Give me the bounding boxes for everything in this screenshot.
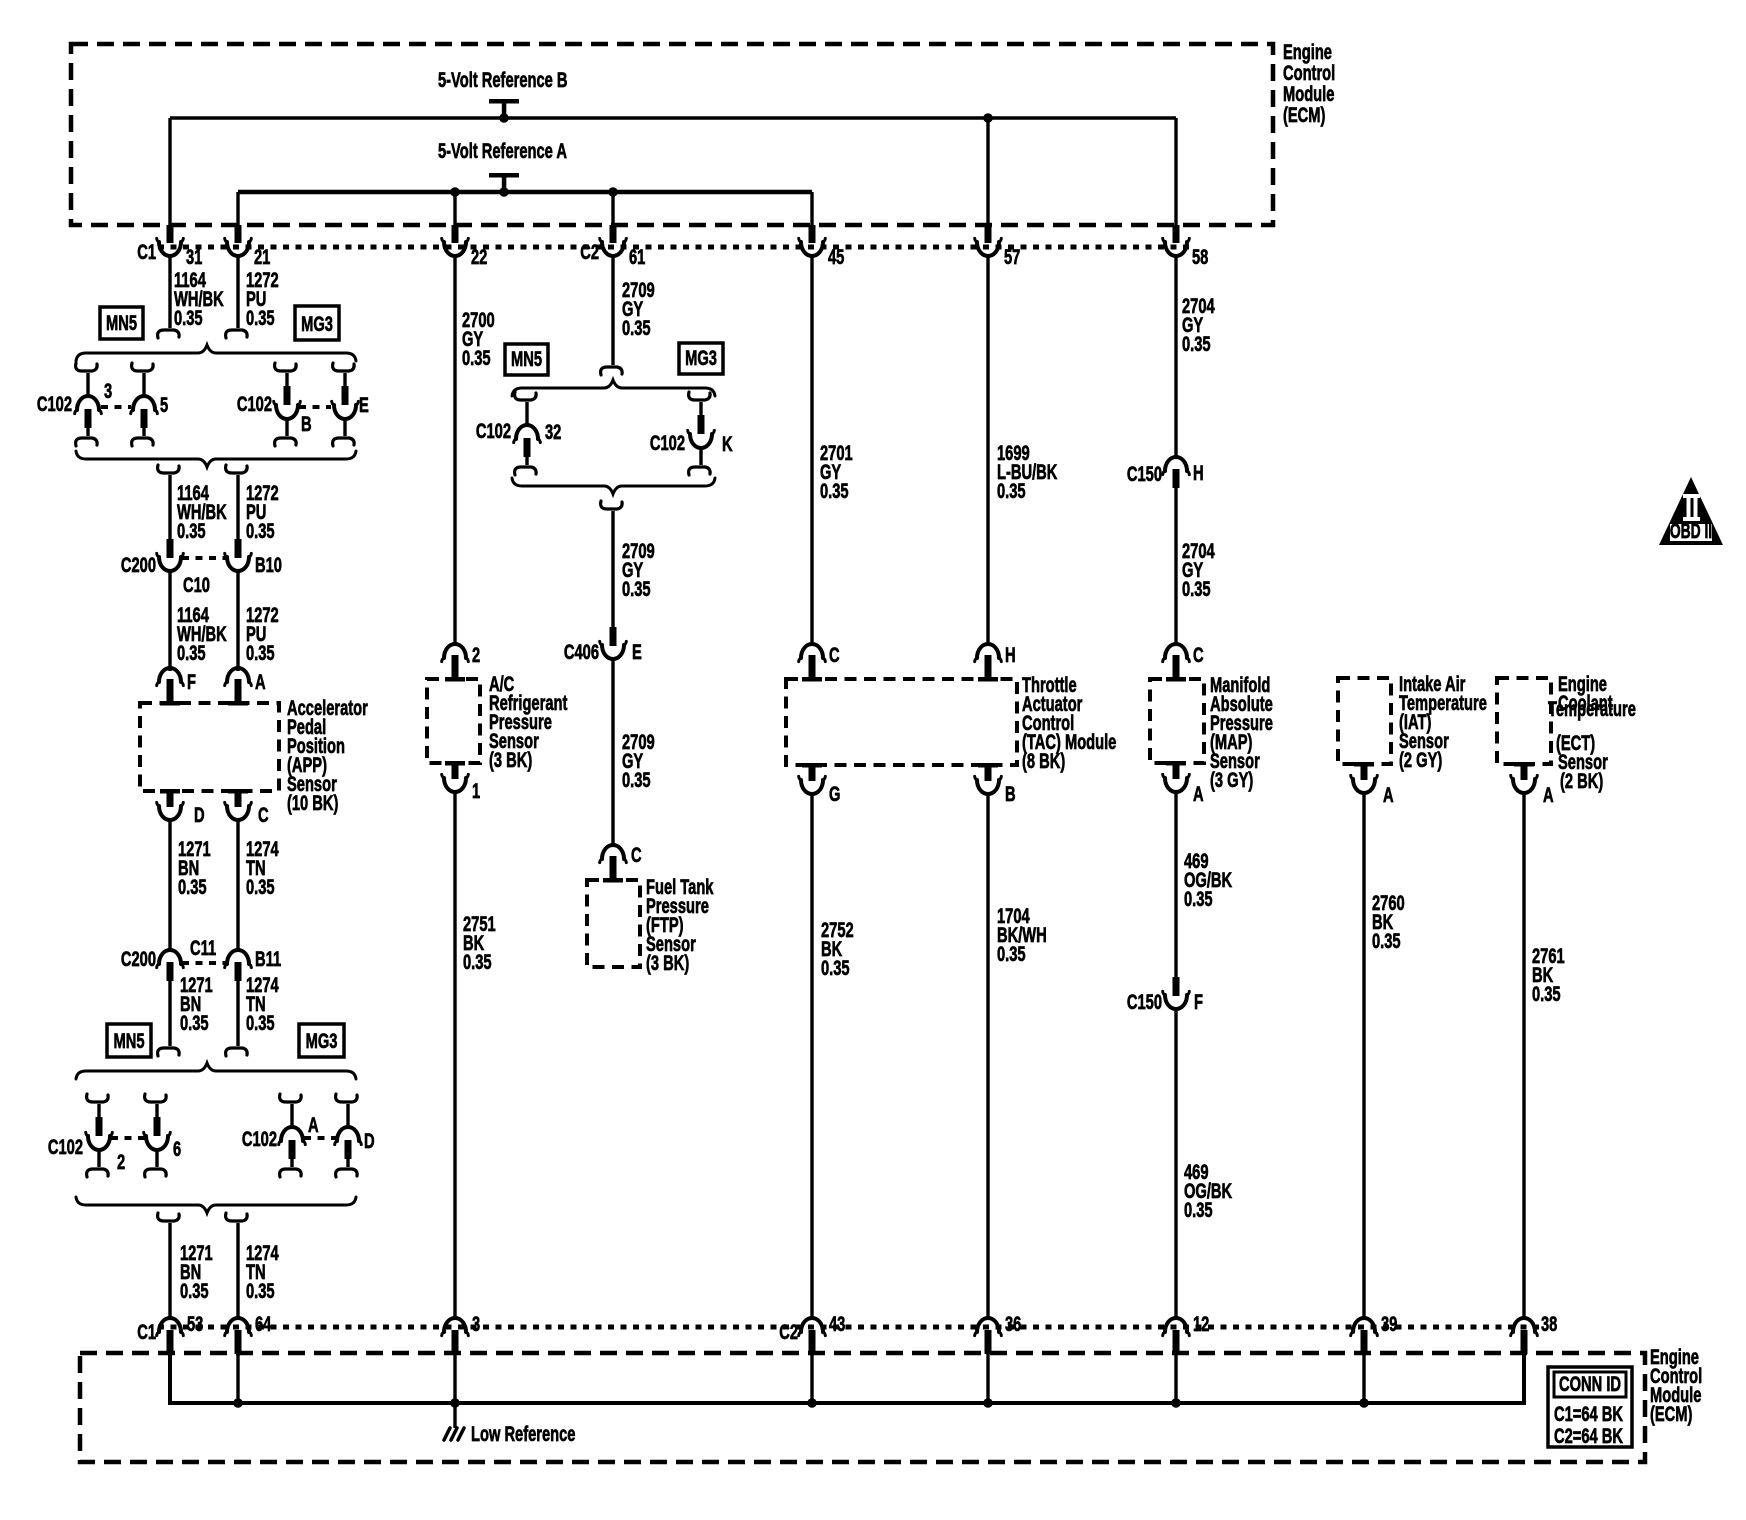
ECM pin 58 (top) (1163, 225, 1209, 269)
svg-text:12: 12 (1193, 1312, 1209, 1335)
svg-text:22: 22 (471, 245, 487, 268)
C200 mating dashes (182, 556, 226, 560)
ECM pin 64 (bottom) (225, 1312, 272, 1354)
svg-text:A: A (308, 1113, 319, 1136)
svg-text:(3 BK): (3 BK) (489, 748, 532, 771)
svg-text:31: 31 (186, 245, 202, 268)
svg-text:OBD II: OBD II (1670, 519, 1712, 543)
svg-text:0.35: 0.35 (1532, 982, 1561, 1005)
svg-text:C10: C10 (183, 573, 210, 596)
wire 469 from MAP pin A to C150 (1174, 792, 1177, 977)
harness label MG3 (295, 306, 339, 340)
wire 469 from C150 to ECM pin 12 (1174, 1009, 1177, 1318)
svg-text:K: K (722, 432, 733, 455)
TAC module pin H (975, 643, 1016, 681)
svg-text:H: H (1005, 643, 1016, 666)
wire label 469 OG/BK 0.35 (1184, 1160, 1232, 1221)
C200 mating dashes (182, 961, 226, 965)
ECM pin 38 (bottom) (1511, 1312, 1558, 1354)
svg-text:C1: C1 (137, 240, 156, 263)
ECM label (top right) (1283, 40, 1335, 126)
5-volt tap symbol on Reference A (489, 173, 519, 197)
harness label MN5 (100, 307, 143, 339)
wire 1274 from C200 to splice group 2 (226, 981, 248, 1056)
ECM pin 3 (bottom) (442, 1312, 480, 1354)
connector C102 pin 32 (476, 392, 561, 475)
svg-text:3: 3 (472, 1312, 480, 1335)
svg-text:(2 BK): (2 BK) (1560, 769, 1603, 792)
harness label MN5 (group 3) (505, 344, 548, 375)
svg-text:Temperature: Temperature (1548, 697, 1636, 720)
wire 2700 from pin 22 to A/C sensor (453, 256, 456, 645)
wire: ref A down to pin 21 (236, 192, 239, 226)
svg-text:21: 21 (254, 245, 270, 268)
connector C102 pin 3 (37, 363, 112, 446)
svg-text:0.35: 0.35 (246, 1011, 275, 1034)
junction on low reference bus x=455 (450, 1354, 460, 1408)
wire 2709 from pin 61 to splice group 3 (601, 256, 623, 375)
svg-text:5-Volt Reference B: 5-Volt Reference B (438, 68, 568, 91)
svg-text:C102: C102 (37, 392, 72, 415)
wire: ref A down to pin 45 (810, 192, 813, 226)
svg-text:C150: C150 (1127, 990, 1162, 1013)
connector C102 pin E (332, 363, 369, 446)
TAC module pin C (799, 643, 840, 681)
svg-text:C11: C11 (190, 936, 216, 959)
wire label 2709 GY 0.35 (622, 539, 655, 600)
svg-text:2: 2 (472, 643, 480, 666)
svg-text:0.35: 0.35 (246, 1279, 275, 1302)
TAC module label (1022, 673, 1116, 772)
CONN ID table (1548, 1367, 1632, 1448)
MAP sensor pin C (1163, 643, 1204, 681)
svg-text:Control: Control (1283, 61, 1335, 84)
svg-text:C2: C2 (580, 240, 599, 263)
svg-text:0.35: 0.35 (997, 942, 1026, 965)
svg-text:MG3: MG3 (306, 1029, 338, 1052)
Low Reference bus inside ECM (170, 1354, 1524, 1403)
Engine Coolant Temperature (ECT) Sensor box (1497, 678, 1551, 764)
APP sensor pin F (157, 668, 196, 706)
svg-text:0.35: 0.35 (246, 875, 275, 898)
svg-text:C: C (1193, 643, 1204, 666)
net label Low Reference (471, 1422, 575, 1445)
svg-text:A: A (255, 670, 266, 693)
APP sensor pin C (225, 789, 269, 827)
svg-text:1: 1 (472, 779, 480, 802)
APP sensor pin D (157, 789, 205, 827)
wire: 5-Volt Reference A bus (238, 190, 812, 195)
connector C102 pin 6 (144, 1094, 181, 1177)
svg-text:0.35: 0.35 (821, 956, 850, 979)
svg-text:0.35: 0.35 (177, 519, 206, 542)
svg-text:0.35: 0.35 (622, 316, 651, 339)
wire 2752 from TAC pin G to ECM pin 43 (810, 794, 813, 1318)
wire 1699 from pin 57 to TAC module (986, 256, 989, 645)
svg-text:MN5: MN5 (113, 1029, 144, 1052)
svg-text:38: 38 (1541, 1312, 1557, 1335)
Throttle Actuator Control (TAC) Module box (786, 679, 1017, 765)
brace (bottom) of C102 splice group 1 (76, 451, 356, 467)
svg-text:A: A (1383, 783, 1394, 806)
svg-text:C: C (258, 803, 269, 826)
svg-text:B: B (301, 412, 312, 435)
wire label 2760 BK 0.35 (1372, 891, 1405, 952)
junction on low reference bus x=238 (233, 1354, 243, 1408)
connector C200 pin C10 (121, 539, 210, 597)
svg-text:F: F (1194, 990, 1203, 1013)
svg-text:F: F (187, 670, 196, 693)
wire label 1271 BN 0.35 (178, 837, 211, 898)
FTP sensor pin C (600, 843, 642, 882)
svg-text:C2: C2 (779, 1320, 798, 1343)
svg-text:C102: C102 (242, 1127, 277, 1150)
svg-text:0.35: 0.35 (180, 1279, 209, 1302)
wire 2704 from C150 to MAP sensor pin C (1174, 488, 1177, 645)
wire label 2709 GY 0.35 (622, 278, 655, 339)
svg-text:B10: B10 (255, 553, 282, 576)
svg-text:C1=64 BK: C1=64 BK (1554, 1402, 1623, 1425)
junction on low reference bus x=812 (807, 1354, 817, 1408)
connector C406 pin E (564, 627, 642, 664)
wire: 5-Volt Reference B bus (170, 116, 1176, 120)
svg-text:G: G (829, 782, 840, 805)
wire label 2704 GY 0.35 (1182, 539, 1215, 600)
wire 2701 from pin 45 to TAC module (810, 256, 813, 645)
connector C200 pin B10 (225, 539, 282, 577)
svg-text:57: 57 (1004, 245, 1020, 268)
connector label C1 (bottom) (137, 1320, 156, 1343)
svg-text:64: 64 (255, 1312, 271, 1335)
svg-text:45: 45 (828, 245, 844, 268)
wire label 2701 GY 0.35 (820, 441, 853, 502)
ECM pin 45 (top) (799, 225, 845, 269)
ECT sensor pin A (1511, 762, 1554, 807)
ECM pin 61 (top) (600, 225, 646, 269)
C102 B-E mating dashes (299, 405, 331, 409)
wire label 2704 GY 0.35 (1182, 294, 1215, 355)
wire: ref B down to pin 31 (168, 118, 171, 226)
connector label C2 (580, 240, 599, 263)
svg-text:(3 BK): (3 BK) (646, 951, 689, 974)
svg-text:C2=64 BK: C2=64 BK (1554, 1424, 1623, 1447)
wire label 2709 GY 0.35 (622, 730, 655, 791)
wire: ref B down to pin 58 (1174, 118, 1177, 226)
A/C sensor label (489, 672, 567, 771)
TAC module pin G (799, 763, 841, 806)
ECM pin 53 (bottom) (157, 1312, 204, 1354)
A/C sensor pin 2 (442, 643, 480, 681)
connector C200 pin C11 (121, 936, 216, 981)
svg-text:B11: B11 (255, 947, 281, 970)
svg-text:A: A (1543, 783, 1554, 806)
svg-text:(ECM): (ECM) (1283, 103, 1325, 126)
svg-text:0.35: 0.35 (820, 479, 849, 502)
svg-text:58: 58 (1192, 245, 1208, 268)
brace (bottom) of C102 splice group 3 (512, 478, 715, 494)
svg-text:B: B (1005, 782, 1016, 805)
svg-text:0.35: 0.35 (462, 346, 491, 369)
connector C200 pin B11 (225, 947, 281, 981)
svg-text:MG3: MG3 (685, 346, 717, 369)
svg-text:(10 BK): (10 BK) (287, 791, 338, 814)
APP sensor pin A (225, 668, 266, 706)
ECM pin 39 (bottom) (1351, 1312, 1398, 1354)
svg-text:0.35: 0.35 (174, 306, 203, 329)
low reference ground symbol (444, 1428, 464, 1440)
brace (top) of C102 splice group 2 (76, 1063, 356, 1079)
connector label C1 (137, 240, 156, 263)
svg-text:C102: C102 (48, 1135, 83, 1158)
svg-text:C: C (829, 643, 840, 666)
svg-text:MN5: MN5 (106, 311, 137, 334)
net label 5-Volt Reference A (438, 139, 567, 162)
svg-text:0.35: 0.35 (622, 577, 651, 600)
wire label 1272 PU 0.35 (246, 268, 279, 329)
svg-text:0.35: 0.35 (180, 1011, 209, 1034)
junction on low reference bus x=1176 (1171, 1354, 1181, 1408)
svg-text:C102: C102 (237, 392, 272, 415)
svg-text:0.35: 0.35 (997, 479, 1026, 502)
svg-text:C406: C406 (564, 640, 599, 663)
svg-text:(2 GY): (2 GY) (1399, 748, 1442, 771)
svg-text:(ECM): (ECM) (1650, 1402, 1692, 1425)
wire label 2751 BK 0.35 (463, 912, 496, 973)
5-volt tap symbol on Reference B (489, 99, 519, 123)
junction on low reference bus x=1364 (1359, 1354, 1369, 1408)
wire 1271 from splice group 2 to ECM pin 53 (158, 1213, 180, 1318)
wire label 1274 TN 0.35 (246, 973, 279, 1034)
C102 A-D mating dashes (304, 1136, 336, 1140)
ECM module box (bottom) (80, 1353, 1645, 1462)
wire: ref A down to pin 61 (608, 187, 618, 226)
Accelerator Pedal Position (APP) Sensor box (140, 703, 279, 791)
ECM pin 43 (bottom) (799, 1312, 846, 1354)
wire 2761 from ECT pin A to ECM pin 38 (1522, 793, 1525, 1318)
wire 1274 from APP pin C to C200 (236, 820, 239, 950)
svg-text:61: 61 (629, 245, 645, 268)
connector C102 pin B (237, 363, 312, 446)
svg-text:(8 BK): (8 BK) (1022, 749, 1065, 772)
ECM C1/C2 connector dotted line (top) (158, 245, 1190, 250)
IAT sensor pin A (1351, 762, 1394, 807)
ECT sensor label (with overprinted lines) (1548, 672, 1636, 792)
wire 2760 from IAT pin A to ECM pin 39 (1362, 793, 1365, 1318)
wire label 1164 WH/BK 0.35 (177, 603, 227, 664)
svg-text:0.35: 0.35 (1184, 887, 1213, 910)
wire 1164 from splice group to C200 (158, 465, 180, 539)
connector C102 pin D (335, 1094, 375, 1177)
svg-text:0.35: 0.35 (246, 641, 275, 664)
FTP sensor label (646, 875, 714, 974)
wire 1164 from pin 31 down to splice group (158, 256, 180, 338)
wire label 1704 BK/WH 0.35 (997, 904, 1047, 965)
svg-text:CONN ID: CONN ID (1559, 1372, 1621, 1395)
brace (top) of C102 splice group 1 (76, 345, 356, 361)
svg-text:(3 GY): (3 GY) (1210, 768, 1253, 791)
svg-text:Low Reference: Low Reference (471, 1422, 575, 1445)
svg-text:0.35: 0.35 (246, 306, 275, 329)
brace (bottom) of C102 splice group 2 (76, 1197, 356, 1213)
connector C102 pin 5 (131, 363, 168, 446)
ECM pin 21 (top) (225, 225, 271, 269)
ECM pin 12 (bottom) (1163, 1312, 1210, 1354)
wire 2751 from A/C pin 1 to ECM pin 3 (453, 792, 456, 1318)
wire: ref A down to pin 22 (450, 187, 460, 226)
connector C150 pin F (1127, 977, 1203, 1014)
svg-text:C102: C102 (650, 431, 685, 454)
connector C102 pin 2 (48, 1094, 125, 1177)
harness label MG3 (group 2) (299, 1024, 344, 1057)
connector C150 pin H (1127, 457, 1204, 488)
wire 1272 from splice group to C200 (226, 465, 248, 539)
svg-text:39: 39 (1381, 1312, 1397, 1335)
svg-text:D: D (364, 1129, 375, 1152)
junction on low reference bus x=988 (983, 1354, 993, 1408)
wire label 1699 L-BU/BK 0.35 (997, 441, 1057, 502)
brace (top) of C102 splice group 3 (512, 380, 715, 396)
svg-text:MN5: MN5 (511, 347, 542, 370)
C102 3-5 mating dashes (101, 405, 131, 409)
Manifold Absolute Pressure (MAP) Sensor box (1150, 679, 1204, 763)
APP sensor label (287, 696, 368, 814)
svg-text:C200: C200 (121, 947, 156, 970)
ECM pin 36 (bottom) (975, 1312, 1022, 1354)
TAC module pin B (975, 763, 1016, 806)
svg-text:A: A (1193, 782, 1204, 805)
wire 1272 from C200 to APP sensor pin A (236, 571, 239, 671)
ECM pin 57 (top) (975, 225, 1021, 269)
connector C102 pin A (242, 1094, 319, 1177)
svg-text:6: 6 (173, 1137, 181, 1160)
ECM pin 22 (top) (442, 225, 488, 269)
wire label 469 OG/BK 0.35 (1184, 849, 1232, 910)
wire 1271 from APP pin D to C200 (168, 820, 171, 950)
svg-text:5-Volt Reference A: 5-Volt Reference A (438, 139, 567, 162)
svg-text:C: C (631, 843, 642, 866)
svg-text:0.35: 0.35 (1184, 1198, 1213, 1221)
svg-text:D: D (194, 803, 205, 826)
svg-text:Engine: Engine (1283, 40, 1332, 63)
svg-text:3: 3 (104, 379, 112, 402)
svg-text:0.35: 0.35 (1182, 577, 1211, 600)
wire label 1164 WH/BK 0.35 (174, 268, 224, 329)
connector C102 pin K (650, 392, 733, 475)
wire 2704 from pin 58 to C150 (1174, 256, 1177, 457)
Fuel Tank Pressure (FTP) Sensor box (587, 880, 640, 967)
svg-text:0.35: 0.35 (178, 875, 207, 898)
wire label 1271 BN 0.35 (180, 973, 213, 1034)
svg-text:0.35: 0.35 (246, 519, 275, 542)
wire: ref B down to pin 57 (983, 113, 993, 226)
svg-text:5: 5 (160, 393, 168, 416)
svg-text:2: 2 (117, 1150, 125, 1173)
svg-text:MG3: MG3 (301, 312, 333, 335)
connector label C2 (bottom) (779, 1320, 798, 1343)
svg-text:36: 36 (1005, 1312, 1021, 1335)
wire 2709 from C406 to FTP sensor pin C (611, 659, 614, 845)
svg-text:0.35: 0.35 (1372, 929, 1401, 952)
svg-text:43: 43 (829, 1312, 845, 1335)
svg-text:C102: C102 (476, 419, 511, 442)
svg-text:H: H (1193, 461, 1204, 484)
wire label 1271 BN 0.35 (180, 1241, 213, 1302)
wire 2709 from splice group 3 to C406 (601, 501, 623, 627)
IAT sensor label (1399, 672, 1487, 771)
svg-text:E: E (632, 640, 642, 663)
svg-text:E: E (359, 393, 369, 416)
wire 1271 from C200 to splice group 2 (158, 981, 180, 1056)
svg-text:0.35: 0.35 (1182, 332, 1211, 355)
svg-text:53: 53 (187, 1312, 203, 1335)
wire 1164 from C200 to APP sensor pin F (168, 571, 171, 671)
harness label MG3 (group 3) (679, 343, 723, 374)
wire label 1272 PU 0.35 (246, 481, 279, 542)
svg-text:C150: C150 (1127, 462, 1162, 485)
svg-text:C1: C1 (137, 1320, 156, 1343)
net label 5-Volt Reference B (438, 68, 568, 91)
ECM label (bottom right) (1650, 1345, 1702, 1425)
ECM C1/C2 connector dotted line (bottom) (158, 1325, 1540, 1330)
wire from pin 3 to low reference ground point (453, 1403, 456, 1428)
wire 1274 from splice group 2 to ECM pin 64 (226, 1213, 248, 1318)
wire label 1272 PU 0.35 (246, 603, 279, 664)
svg-text:C200: C200 (121, 553, 156, 576)
ECM pin 31 (top) (157, 225, 203, 269)
svg-text:0.35: 0.35 (463, 950, 492, 973)
wire label 2761 BK 0.35 (1532, 944, 1565, 1005)
A/C Refrigerant Pressure Sensor box (427, 679, 480, 763)
A/C sensor pin 1 (442, 761, 480, 803)
MAP sensor pin A (1163, 761, 1204, 806)
C102 2-6 mating dashes (111, 1136, 145, 1140)
wire label 2700 GY 0.35 (462, 308, 495, 369)
ECM module box (top) (71, 44, 1273, 225)
wire label 1274 TN 0.35 (246, 1241, 279, 1302)
wire label 1164 WH/BK 0.35 (177, 481, 227, 542)
svg-text:0.35: 0.35 (622, 768, 651, 791)
harness label MN5 (group 2) (107, 1024, 151, 1057)
svg-text:Module: Module (1283, 82, 1334, 105)
OBD II symbol (1659, 477, 1723, 545)
wire label 1274 TN 0.35 (246, 837, 279, 898)
wire 1272 from pin 21 down to splice group (226, 256, 248, 338)
svg-text:32: 32 (545, 420, 561, 443)
Intake Air Temperature (IAT) Sensor box (1338, 678, 1391, 764)
wire 1704 from TAC pin B to ECM pin 36 (986, 794, 989, 1318)
MAP sensor label (1210, 673, 1273, 791)
svg-text:0.35: 0.35 (177, 641, 206, 664)
wire label 2752 BK 0.35 (821, 918, 854, 979)
